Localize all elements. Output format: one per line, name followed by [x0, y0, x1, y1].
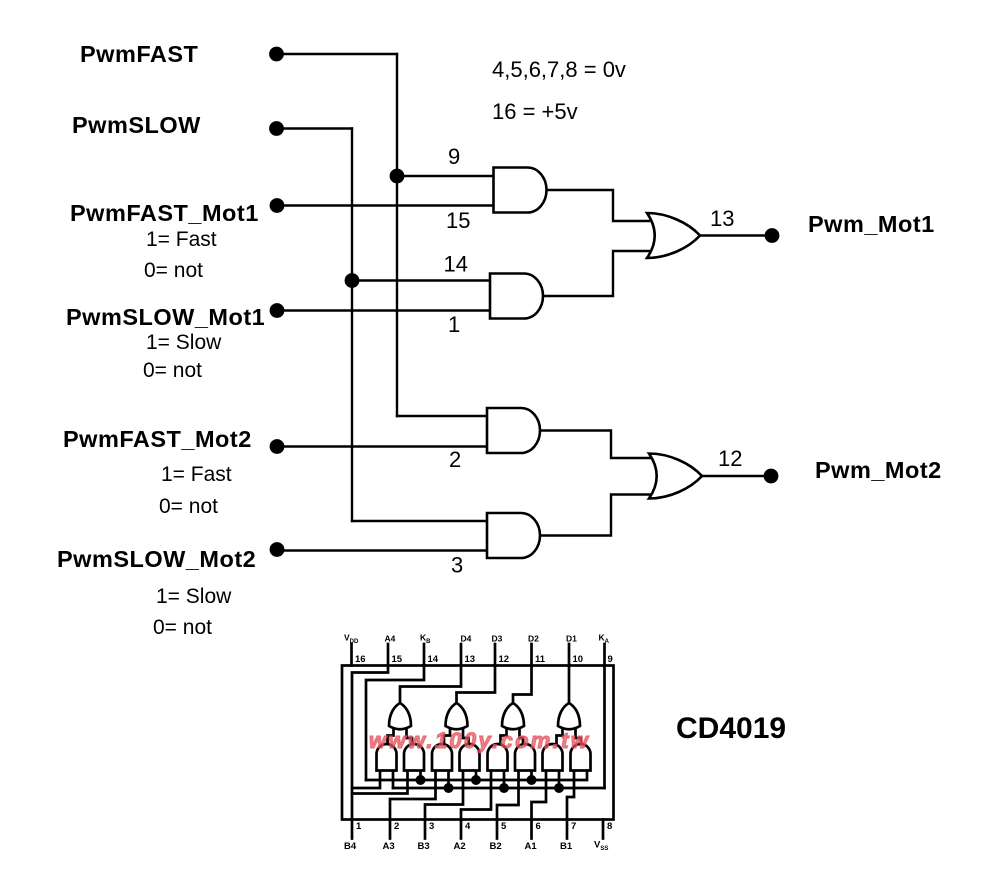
pin 16 VDD stub	[350, 644, 353, 666]
svg-text:1= Fast: 1= Fast	[161, 463, 232, 486]
and-gate G1 pins 9,15	[494, 168, 547, 213]
svg-text:D1: D1	[566, 634, 577, 644]
svg-text:11: 11	[535, 654, 546, 665]
svg-text:Pwm_Mot1: Pwm_Mot1	[808, 211, 935, 237]
wire OR W2 left input jog	[444, 729, 450, 746]
node PwmSLOW terminal	[269, 121, 284, 136]
wire B4 staircase pin1 to AND B1g left input	[352, 771, 408, 794]
svg-text:3: 3	[451, 553, 463, 578]
IC body box	[342, 666, 614, 820]
node PwmSLOW_Mot1 terminal	[270, 303, 285, 318]
wire OR W1 right input jog	[407, 729, 413, 747]
svg-text:4,5,6,7,8 = 0v: 4,5,6,7,8 = 0v	[492, 57, 626, 82]
pin 15 A4 stub	[387, 644, 390, 666]
or-gate W4 (IC, output D1)	[558, 703, 580, 729]
pin 12 D3 stub	[494, 644, 497, 666]
and-gate B3g (IC B2.KB)	[515, 744, 535, 771]
svg-text:10: 10	[573, 654, 584, 665]
wire PwmFAST horizontal	[279, 53, 397, 55]
wire OR W4 output to pin 10	[568, 666, 571, 704]
svg-text:B4: B4	[344, 841, 357, 852]
wire OR W4 right input jog	[576, 729, 582, 747]
svg-text:9: 9	[448, 144, 460, 169]
wire AND A3g right input to bus2	[503, 771, 506, 789]
svg-text:PwmFAST: PwmFAST	[80, 41, 199, 67]
pin 9 KA stub	[603, 644, 606, 666]
wire OR W3 left input jog	[501, 729, 507, 746]
pin 1 B4 stub	[351, 820, 354, 839]
wire PwmSLOW_Mot2 pin3 to AND G4	[279, 549, 488, 551]
wire OR W3 output to pin 11	[513, 666, 532, 704]
svg-text:PwmFAST_Mot1: PwmFAST_Mot1	[70, 200, 259, 226]
svg-text:PwmFAST_Mot2: PwmFAST_Mot2	[63, 426, 252, 452]
node bus2 KA dot 2	[499, 783, 509, 793]
svg-text:PwmSLOW_Mot2: PwmSLOW_Mot2	[57, 546, 256, 572]
pin 8 VSS stub	[602, 820, 605, 839]
svg-text:1= Slow: 1= Slow	[146, 331, 222, 354]
svg-text:D4: D4	[461, 634, 472, 644]
svg-text:A1: A1	[525, 841, 538, 852]
wire OR W2 right input jog	[463, 729, 469, 747]
svg-text:16 = +5v: 16 = +5v	[492, 99, 578, 124]
wire AND B1g right input to bus1	[419, 771, 422, 781]
and-gate B1g (IC B4.KB)	[404, 744, 424, 771]
node Pwm_Mot2 output terminal	[764, 469, 779, 484]
svg-text:PwmSLOW_Mot1: PwmSLOW_Mot1	[66, 304, 265, 330]
wire AND B3g right input to bus1	[530, 771, 533, 781]
wire KB route from pin 14 to bus1	[366, 666, 424, 781]
or-gate U1 pin 13	[647, 213, 700, 258]
wire A3 staircase pin2 to AND A2g left input	[390, 771, 436, 820]
and-gate B2g (IC B3.KB)	[460, 744, 480, 771]
wire OR U2 output pin12	[702, 475, 765, 477]
pin 13 D4 stub	[460, 644, 463, 666]
svg-text:A3: A3	[383, 841, 395, 852]
wire AND A2g right input to bus2	[447, 771, 450, 789]
svg-text:14: 14	[428, 654, 439, 665]
wire KA route from pin 9 to bus2	[603, 666, 606, 789]
and-gate B4g (IC B1.KB)	[571, 744, 591, 771]
or-gate W3 (IC, output D2)	[502, 703, 524, 729]
or-gate W1 (IC, output D4)	[389, 703, 411, 729]
svg-text:D2: D2	[528, 634, 539, 644]
wire A4 jog to AND A1g left input	[352, 771, 380, 789]
node junction PwmSLOW/pin14	[345, 273, 360, 288]
wire PwmFAST_Mot2 pin2 to AND G3	[279, 445, 488, 447]
node bus1 KB dot 3	[527, 775, 537, 785]
svg-text:6: 6	[536, 821, 541, 832]
wire AND G2 output to OR U1	[543, 251, 649, 296]
and-gate G3 pin 2	[487, 408, 540, 453]
wire AND B2g right input to bus1	[475, 771, 478, 781]
node Pwm_Mot1 output terminal	[765, 228, 780, 243]
wire PwmSLOW_Mot1 pin1 to AND G2	[279, 309, 491, 311]
svg-text:PwmSLOW: PwmSLOW	[72, 112, 201, 138]
svg-text:A4: A4	[385, 634, 396, 644]
svg-text:www.100y.com.tw: www.100y.com.tw	[369, 728, 590, 753]
node PwmFAST_Mot1 terminal	[270, 198, 285, 213]
wire PwmFAST vertical	[396, 54, 398, 416]
node PwmFAST terminal	[269, 47, 284, 62]
wire OR W1 output to pin 13	[400, 666, 461, 704]
pin 4 A2 stub	[460, 820, 463, 839]
svg-text:A2: A2	[454, 841, 466, 852]
node bus2 KA dot 3	[554, 783, 564, 793]
svg-text:15: 15	[446, 208, 470, 233]
svg-text:9: 9	[608, 654, 613, 665]
and-gate A3g (IC A2.KA)	[488, 744, 508, 771]
wire B3 staircase pin3 to AND B2g left input	[425, 771, 463, 820]
node bus1 KB dot 2	[471, 775, 481, 785]
wire AND A4g right input to bus2	[558, 771, 561, 789]
wire KB bus1	[366, 771, 587, 781]
and-gate G2 pins 14,1	[490, 274, 543, 319]
svg-text:D3: D3	[492, 634, 503, 644]
svg-text:7: 7	[571, 821, 576, 832]
svg-text:0= not: 0= not	[159, 495, 218, 518]
wire OR W1 left input jog	[388, 729, 394, 746]
pin 2 A3 stub	[389, 820, 392, 839]
pin 14 KB stub	[423, 644, 426, 666]
svg-text:12: 12	[499, 654, 510, 665]
wire PwmFAST to AND G3 top	[397, 415, 488, 417]
pin 5 B2 stub	[496, 820, 499, 839]
node bus2 KA dot 1	[444, 783, 454, 793]
and-gate G4 pin 3	[487, 513, 540, 558]
pin 10 D1 stub	[568, 644, 571, 666]
and-gate A4g (IC A1.KA)	[543, 744, 563, 771]
wire B2 staircase pin5 to AND B3g left input	[497, 771, 519, 820]
and-gate A2g (IC A3.KA)	[432, 744, 452, 771]
wire OR U1 output pin13	[700, 234, 766, 236]
wire A4 route from pin 15	[352, 666, 388, 820]
svg-text:1= Fast: 1= Fast	[146, 228, 217, 251]
node PwmSLOW_Mot2 terminal	[270, 542, 285, 557]
wire A2 staircase pin4 to AND A3g left input	[461, 771, 491, 820]
svg-text:13: 13	[465, 654, 476, 665]
wire AND A1g right input to bus2	[392, 771, 395, 789]
wire A1 staircase pin6 to AND A4g left input	[532, 771, 547, 820]
svg-text:13: 13	[710, 206, 734, 231]
wire pin14 to AND G2	[352, 279, 491, 281]
svg-text:4: 4	[465, 821, 471, 832]
or-gate U2 pin 12	[649, 454, 702, 499]
wire PwmFAST_Mot1 pin15 to AND G1	[279, 204, 494, 206]
node bus1 KB dot 1	[416, 775, 426, 785]
node junction PwmFAST/pin9	[390, 169, 405, 184]
svg-text:0= not: 0= not	[144, 259, 203, 282]
svg-text:3: 3	[429, 821, 434, 832]
svg-text:1: 1	[448, 312, 460, 337]
wire B1 staircase pin7 to AND B4g left input	[567, 771, 574, 820]
svg-text:0= not: 0= not	[143, 359, 202, 382]
svg-text:16: 16	[355, 654, 366, 665]
svg-text:Pwm_Mot2: Pwm_Mot2	[815, 457, 942, 483]
pin 11 D2 stub	[530, 644, 533, 666]
svg-text:2: 2	[449, 447, 461, 472]
wire pin9 to AND G1	[397, 175, 494, 177]
svg-text:B3: B3	[418, 841, 430, 852]
svg-text:12: 12	[718, 446, 742, 471]
or-gate W2 (IC, output D3)	[446, 703, 468, 729]
svg-text:1: 1	[356, 821, 362, 832]
svg-text:CD4019: CD4019	[676, 712, 786, 745]
svg-text:15: 15	[392, 654, 403, 665]
wire OR W3 right input jog	[520, 729, 524, 747]
pin 3 B3 stub	[424, 820, 427, 839]
wire OR W2 output to pin 12	[457, 666, 496, 704]
svg-text:2: 2	[394, 821, 399, 832]
svg-text:0= not: 0= not	[153, 616, 212, 639]
wire PwmSLOW to AND G4 top	[352, 520, 488, 522]
wire AND G4 output to OR U2	[540, 495, 651, 536]
pin 7 B1 stub	[566, 820, 569, 839]
wire KA bus2	[393, 787, 605, 790]
node PwmFAST_Mot2 terminal	[270, 439, 285, 454]
svg-text:B2: B2	[490, 841, 502, 852]
pin 6 A1 stub	[530, 820, 533, 839]
and-gate A1g (IC A4.KA)	[377, 744, 397, 771]
wire PwmSLOW horizontal	[279, 127, 352, 129]
wire PwmSLOW vertical	[351, 129, 353, 522]
wire AND G3 output to OR U2	[540, 431, 651, 459]
svg-text:8: 8	[607, 821, 612, 832]
svg-text:14: 14	[444, 252, 468, 277]
svg-text:B1: B1	[560, 841, 573, 852]
wire OR W4 left input jog	[557, 729, 563, 746]
svg-text:1= Slow: 1= Slow	[156, 585, 232, 608]
svg-text:5: 5	[501, 821, 507, 832]
wire AND G1 output to OR U1	[546, 190, 649, 221]
